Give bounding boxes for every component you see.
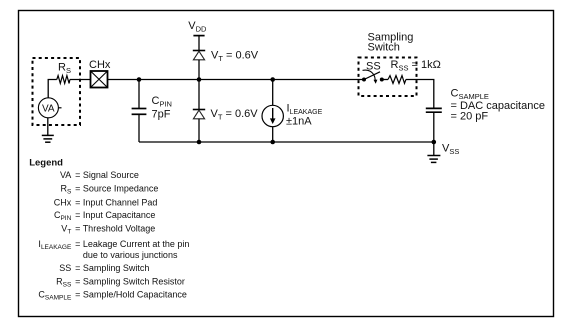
wire: main rail down to diode D2 [198,80,200,110]
svg-text:= Input Channel Pad: = Input Channel Pad [75,197,157,207]
capacitor CSAMPLE [426,88,545,123]
svg-text:= Threshold Voltage: = Threshold Voltage [75,224,155,234]
current source ILEAKAGE [262,103,323,128]
sampling switch dashed box [359,58,417,97]
node VSS [432,140,437,145]
svg-text:VT = 0.6V: VT = 0.6V [211,50,259,64]
svg-text:Legend: Legend [29,158,63,169]
svg-text:= Sample/Hold Capacitance: = Sample/Hold Capacitance [75,289,187,299]
svg-text:= Sampling Switch Resistor: = Sampling Switch Resistor [75,276,185,286]
switch SS [362,70,384,84]
node: CPIN tap [137,77,142,82]
ground (signal source) [42,118,54,142]
wire: main rail CHx to sampling switch [108,79,365,81]
resistor Rs [57,61,71,83]
wire: bottom rail [139,141,434,143]
svg-text:= Sampling Switch: = Sampling Switch [75,263,149,273]
wire: down to CPIN [138,80,140,109]
wire: VA to Rs [48,80,57,98]
svg-text:= Input Capacitance: = Input Capacitance [75,210,155,220]
resistor RSS [388,76,406,84]
svg-text:VA: VA [60,170,71,180]
svg-text:CHx: CHx [54,197,72,207]
node: diode column on bottom rail [197,140,202,145]
svg-text:±1nA: ±1nA [286,116,312,128]
wire: Rs to CHx [70,79,91,81]
diode D2 (VSS to pin) [193,110,205,119]
capacitor CPIN [132,95,172,121]
node: leakage tap on main rail [270,77,275,82]
svg-text:VT = 0.6V: VT = 0.6V [211,108,259,122]
svg-text:= Signal Source: = Signal Source [75,170,139,180]
ground (VSS) [427,142,440,162]
wire: D1 to main rail [198,60,200,80]
wire: CPIN to bottom rail [138,114,140,142]
wire: CSAMPLE to bottom rail [433,112,435,142]
svg-text:VA: VA [42,104,55,115]
label Sampling Switch [368,31,414,53]
svg-text:7pF: 7pF [152,109,171,121]
node: leakage on bottom rail [270,140,275,145]
diode D1 (pin to VDD) [193,51,205,60]
svg-text:= Leakage Current at the pin: = Leakage Current at the pin [75,239,189,249]
signal source VA [38,98,61,118]
node: diode column on main rail [197,77,202,82]
input channel pad CHx [89,59,111,88]
svg-text:= 20 pF: = 20 pF [451,110,489,122]
wire: switch to RSS [382,79,388,81]
svg-text:CHx: CHx [89,59,111,71]
svg-text:SS: SS [59,263,71,273]
wire: ILEAKAGE to bottom rail [272,127,274,142]
signal source dashed box [33,58,81,125]
wire: RSS to CSAMPLE [406,80,434,109]
svg-text:Switch: Switch [368,42,400,54]
svg-text:RSS = 1kΩ: RSS = 1kΩ [391,59,441,73]
wire: D2 to bottom rail [198,119,200,142]
supply VDD [188,20,207,36]
svg-text:due to various junctions: due to various junctions [83,250,178,260]
wire: main rail down to ILEAKAGE [272,80,274,106]
wire: VDD to diode D1 [198,36,200,51]
svg-text:= Source Impedance: = Source Impedance [75,183,158,193]
